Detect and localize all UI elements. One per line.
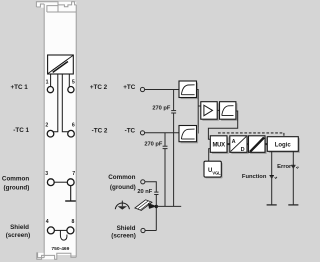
svg-text:MUX: MUX bbox=[212, 142, 225, 148]
terminal 6 bbox=[68, 122, 75, 137]
svg-text:2: 2 bbox=[45, 122, 48, 128]
shield clamp symbol bbox=[135, 200, 156, 211]
wire to terminal 6 bbox=[62, 74, 68, 132]
svg-text:D: D bbox=[241, 147, 245, 153]
op-amp A1 bbox=[201, 102, 219, 121]
svg-text:Common: Common bbox=[108, 174, 135, 181]
svg-text:Common: Common bbox=[2, 176, 29, 183]
wire rail C2 to ground rail bbox=[164, 149, 166, 206]
wire isolation to Logic bbox=[265, 143, 267, 145]
wire Logic to Function LED bbox=[271, 151, 273, 204]
svg-text:A: A bbox=[232, 139, 236, 145]
MUX U1 bbox=[210, 136, 228, 154]
label Shield (screen) schematic bbox=[111, 225, 136, 239]
svg-text:+TC 2: +TC 2 bbox=[90, 84, 108, 91]
svg-text:8: 8 bbox=[72, 219, 75, 225]
ground rail bbox=[156, 205, 181, 207]
svg-text:Error: Error bbox=[277, 164, 292, 170]
svg-text:Logic: Logic bbox=[275, 143, 292, 149]
terminal 4 bbox=[46, 219, 55, 234]
A/D converter U2 bbox=[230, 136, 249, 154]
label Shield (screen) left bbox=[6, 224, 31, 239]
wire filter F2 output bbox=[196, 90, 198, 134]
svg-text:-TC 2: -TC 2 bbox=[92, 128, 108, 135]
junction dot bbox=[155, 205, 158, 208]
label Common (ground) schematic bbox=[108, 174, 136, 191]
wire +TC to filter bbox=[145, 89, 179, 91]
wire cap to junction bbox=[155, 195, 157, 231]
wire terminal 3 to 7 bbox=[54, 181, 67, 183]
svg-text:3: 3 bbox=[45, 171, 48, 177]
svg-text:5: 5 bbox=[72, 79, 75, 85]
node Function end bbox=[267, 204, 277, 206]
module body fill bbox=[36, 2, 76, 259]
filter box F3 bbox=[220, 102, 238, 121]
wire filter F3 to MUX bbox=[208, 111, 237, 139]
node Common terminal bbox=[141, 180, 145, 184]
svg-text:Shield: Shield bbox=[10, 224, 29, 231]
svg-text:1: 1 bbox=[46, 79, 49, 85]
protective earth symbol bbox=[115, 201, 129, 210]
svg-text:(screen): (screen) bbox=[6, 232, 31, 239]
wire stub to terminal 1 bbox=[50, 74, 52, 86]
svg-text:Function: Function bbox=[242, 174, 267, 180]
wire Common to cap bbox=[145, 182, 156, 192]
isolation barrier U3 bbox=[249, 136, 267, 154]
svg-text:+TC: +TC bbox=[123, 84, 136, 91]
svg-text:Shield: Shield bbox=[117, 225, 136, 232]
node +TC terminal bbox=[140, 87, 144, 91]
terminal 7 bbox=[67, 171, 75, 186]
wire rail C1 to ground rail bbox=[173, 113, 175, 206]
terminal 2 bbox=[45, 122, 53, 137]
LED Error bbox=[291, 165, 299, 168]
svg-text:270 pF: 270 pF bbox=[144, 141, 163, 147]
wire A/D to isolation bbox=[247, 143, 249, 145]
node Error end bbox=[288, 204, 298, 206]
wire -TC to filter bbox=[145, 132, 179, 134]
ground (internal, at terminal 7) bbox=[65, 186, 76, 201]
svg-text:270 pF: 270 pF bbox=[152, 105, 171, 111]
wire to amplifier input bbox=[198, 105, 201, 107]
wire Shield to junction bbox=[145, 230, 156, 232]
svg-text:4: 4 bbox=[46, 219, 49, 225]
LED Function bbox=[270, 176, 278, 179]
svg-text:+TC 1: +TC 1 bbox=[10, 84, 28, 91]
svg-text:-TC 1: -TC 1 bbox=[13, 127, 29, 134]
svg-text:6: 6 bbox=[72, 122, 75, 128]
terminal 3 bbox=[45, 171, 54, 186]
capacitor C2 270pF bbox=[144, 133, 167, 149]
terminal 5 bbox=[68, 79, 75, 92]
capacitor C3 20nF bbox=[137, 189, 158, 195]
wire U VGL to MUX bbox=[209, 149, 211, 162]
filter box F4 (-TC path) bbox=[179, 126, 198, 144]
wire to terminal 2 bbox=[53, 74, 58, 132]
function block F1 bbox=[48, 55, 74, 74]
wire amp to filter F3 bbox=[217, 109, 219, 111]
label Common (ground) left bbox=[2, 176, 29, 192]
logic block U4 bbox=[267, 137, 300, 153]
svg-text:7: 7 bbox=[72, 171, 75, 177]
svg-text:750-469: 750-469 bbox=[51, 246, 69, 252]
svg-text:VGL: VGL bbox=[212, 171, 221, 176]
svg-text:-TC: -TC bbox=[125, 128, 136, 135]
wire stub to terminal 5 bbox=[68, 74, 70, 87]
voltage source U VGL bbox=[204, 161, 223, 178]
svg-text:(ground): (ground) bbox=[4, 185, 30, 192]
node -TC terminal bbox=[140, 131, 144, 135]
wire Logic to Error LED bbox=[292, 151, 294, 204]
node Shield terminal bbox=[141, 228, 145, 232]
wire MUX to A/D bbox=[227, 143, 230, 145]
svg-text:20 nF: 20 nF bbox=[137, 189, 152, 195]
svg-text:(ground): (ground) bbox=[110, 184, 136, 191]
capacitor C1 270pF bbox=[152, 90, 176, 114]
module outline bbox=[36, 2, 76, 260]
terminal 1 bbox=[46, 79, 54, 92]
wire terminal 4 to 8 with shield hook bbox=[55, 230, 67, 240]
svg-text:(screen): (screen) bbox=[111, 232, 136, 239]
filter box F2 (+TC path) bbox=[179, 81, 198, 99]
dashed isolation boundary bbox=[218, 133, 284, 136]
terminal 8 bbox=[67, 219, 75, 234]
